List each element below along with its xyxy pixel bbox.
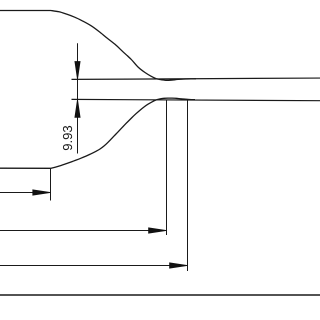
svg-text:9.93: 9.93 [60,125,75,151]
right arrowhead at x=187.3 y=265.4 [170,263,188,268]
dimension line y=265.4 from left edge [0,265,186,267]
down arrowhead of 9.93 dimension [75,62,80,80]
long horizontal line y=295 full width [0,294,320,296]
specimen lower gauge edge line (extends right) [72,99,320,100]
specimen bottom edge with lower fillet curve [0,98,195,168]
extension line at x=166.5 from lower gauge edge [166,100,168,235]
extension line at x=51 below bottom edge [50,169,52,201]
specimen upper gauge edge line (extends right) [72,78,320,79]
extension line at x=187.5 from lower gauge edge [187,100,189,271]
dimension line y=192.4 from left edge [0,192,49,194]
vertical dimension line for 9.93 at x=77.5 [77,43,79,153]
right arrowhead at x=50.5 y=192.4 [33,190,51,195]
dimension line y=230 from left edge [0,230,165,232]
right arrowhead at x=166.3 y=230 [149,228,167,233]
specimen top edge with upper fillet curve [0,11,196,81]
up arrowhead of 9.93 dimension [75,100,80,118]
